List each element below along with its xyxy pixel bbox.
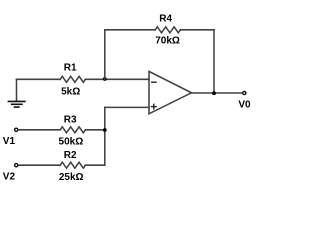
node non-inverting junction (103, 128, 107, 132)
svg-text:R4: R4 (159, 13, 172, 24)
op-amp plus marker (152, 104, 157, 109)
terminal V2 (15, 164, 18, 167)
node inverting input junction (103, 77, 107, 81)
svg-text:50kΩ: 50kΩ (59, 137, 84, 148)
terminal V0 (243, 91, 246, 94)
svg-text:R2: R2 (64, 150, 77, 161)
node output junction (212, 91, 216, 95)
wire feedback right vertical (213, 30, 215, 93)
wire plus input horizontal (105, 106, 149, 108)
svg-text:25kΩ: 25kΩ (59, 172, 84, 183)
op-amp minus marker (152, 81, 156, 83)
wire R3 to junction (85, 129, 104, 131)
wire R1 to op-amp minus input (85, 78, 149, 80)
svg-text:R1: R1 (64, 62, 77, 73)
svg-text:70kΩ: 70kΩ (155, 36, 180, 47)
terminal V1 (15, 128, 18, 131)
wire feedback top right (180, 29, 214, 31)
ground (8, 79, 25, 107)
svg-text:V0: V0 (238, 100, 251, 111)
wire feedback left vertical (104, 30, 106, 80)
resistor R3 (60, 127, 85, 133)
wire V2 to R2 (19, 164, 61, 166)
svg-text:V2: V2 (3, 171, 16, 182)
wire op-amp output (192, 92, 243, 94)
svg-text:R3: R3 (64, 115, 77, 126)
wire feedback top left (105, 29, 155, 31)
svg-text:V1: V1 (3, 136, 16, 147)
resistor R2 (60, 162, 85, 168)
svg-text:5kΩ: 5kΩ (61, 86, 80, 97)
wire V1 to R3 (19, 129, 61, 131)
wire R2 to vertical (85, 164, 104, 166)
op-amp U1 (149, 71, 192, 113)
wire ground to R1 (17, 78, 61, 80)
resistor R4 (155, 27, 180, 33)
wire plus input vertical (104, 107, 106, 165)
resistor R1 (60, 76, 85, 82)
